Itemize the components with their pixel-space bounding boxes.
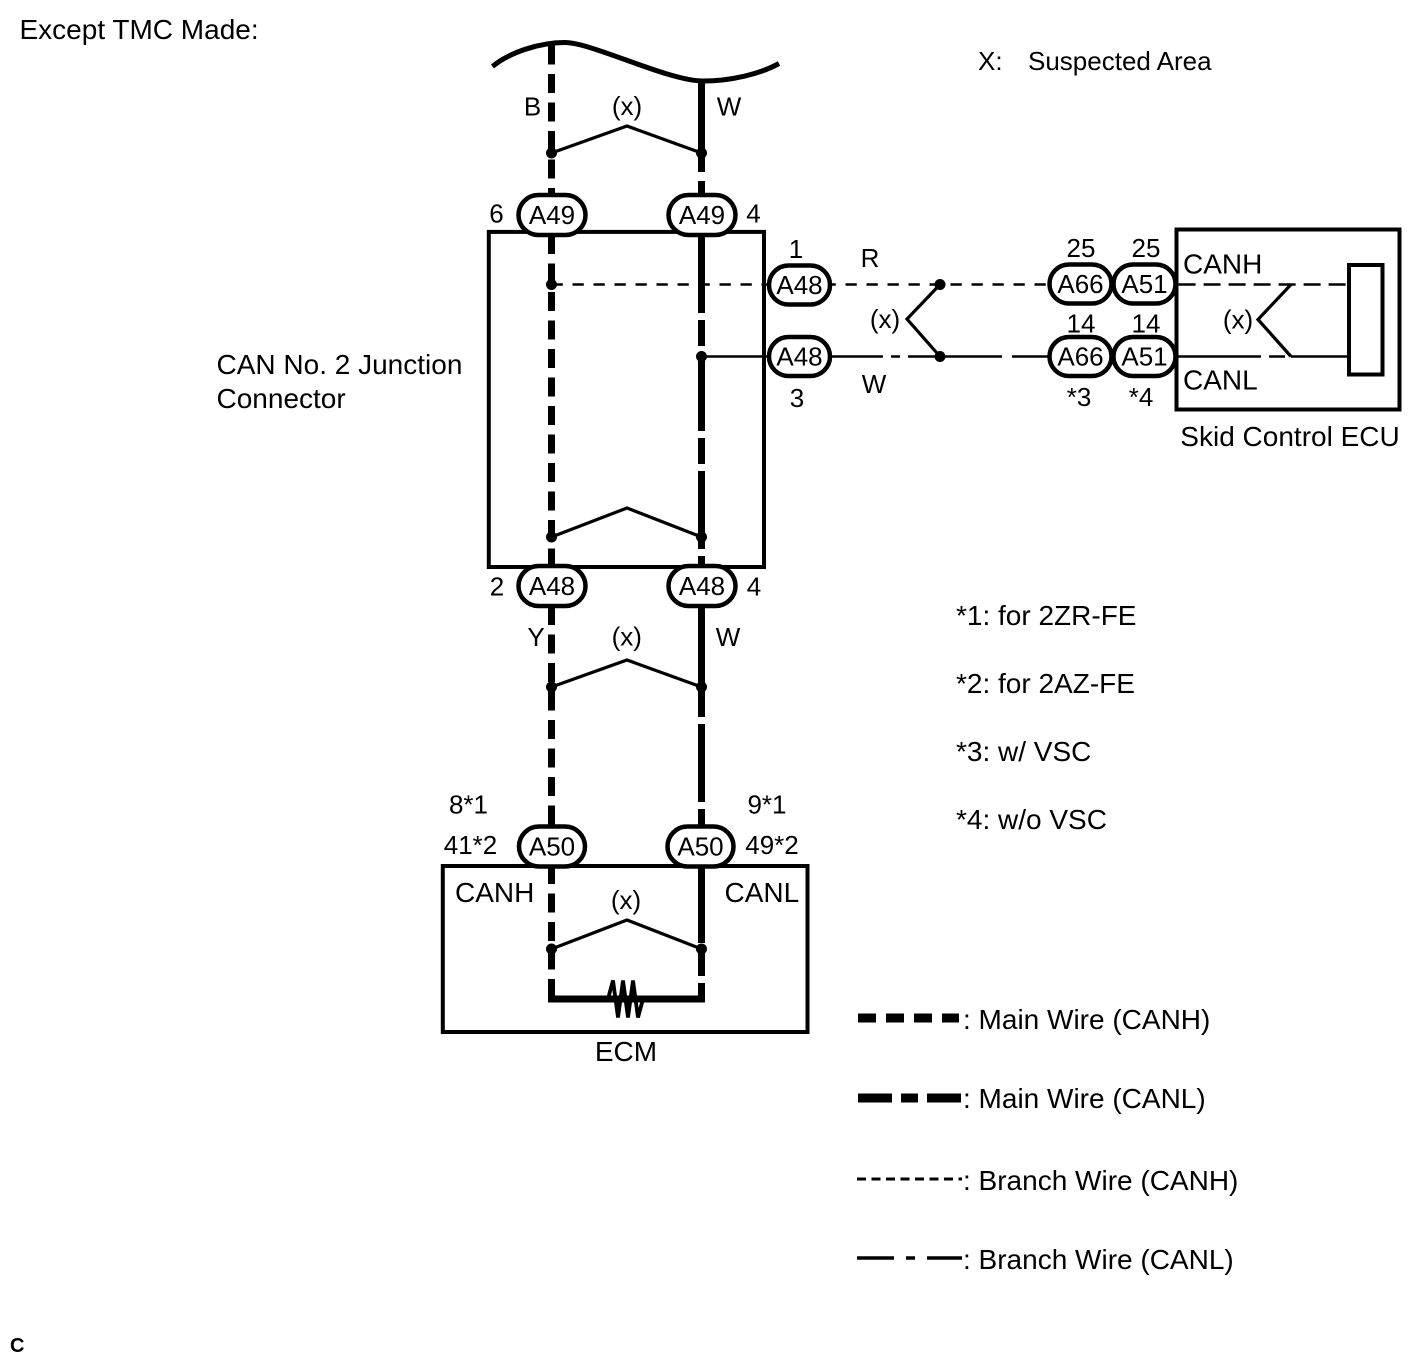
- svg-text:25: 25: [1132, 233, 1161, 263]
- svg-text:25: 25: [1067, 233, 1096, 263]
- svg-text:A48: A48: [776, 342, 822, 372]
- svg-text:14: 14: [1067, 309, 1096, 339]
- svg-text:Except TMC Made:: Except TMC Made:: [20, 14, 259, 45]
- svg-text:*4: w/o VSC: *4: w/o VSC: [956, 804, 1107, 835]
- svg-text:1: 1: [789, 234, 803, 264]
- svg-text:A66: A66: [1057, 342, 1103, 372]
- svg-text:W: W: [716, 622, 741, 652]
- svg-text:*3: *3: [1067, 382, 1092, 412]
- svg-text:A50: A50: [677, 832, 723, 862]
- svg-text:3: 3: [790, 383, 804, 413]
- svg-text:: Branch Wire (CANL): : Branch Wire (CANL): [963, 1244, 1234, 1275]
- svg-text:4: 4: [746, 199, 760, 229]
- svg-text:9*1: 9*1: [747, 790, 786, 820]
- svg-text:W: W: [717, 92, 742, 122]
- svg-text:A51: A51: [1121, 269, 1167, 299]
- svg-text:: Branch Wire (CANH): : Branch Wire (CANH): [963, 1165, 1238, 1196]
- svg-text:(x): (x): [1223, 305, 1253, 335]
- svg-text:Y: Y: [527, 622, 544, 652]
- svg-text:CANL: CANL: [1183, 365, 1258, 396]
- svg-text:A48: A48: [529, 571, 575, 601]
- svg-text:A66: A66: [1057, 269, 1103, 299]
- svg-text:Suspected Area: Suspected Area: [1028, 46, 1212, 76]
- svg-text:: Main Wire (CANH): : Main Wire (CANH): [963, 1004, 1210, 1035]
- svg-text:: Main Wire (CANL): : Main Wire (CANL): [963, 1083, 1206, 1114]
- svg-text:CAN No. 2 Junction: CAN No. 2 Junction: [217, 349, 463, 380]
- svg-text:ECM: ECM: [595, 1036, 657, 1067]
- svg-text:*2: for 2AZ-FE: *2: for 2AZ-FE: [956, 668, 1135, 699]
- svg-text:8*1: 8*1: [449, 790, 488, 820]
- svg-text:(x): (x): [612, 622, 642, 652]
- svg-text:CANH: CANH: [455, 877, 534, 908]
- svg-text:R: R: [861, 243, 880, 273]
- svg-text:*3: w/ VSC: *3: w/ VSC: [956, 736, 1091, 767]
- svg-text:14: 14: [1132, 309, 1161, 339]
- svg-text:2: 2: [490, 572, 504, 602]
- svg-text:CANH: CANH: [1183, 249, 1262, 280]
- svg-text:49*2: 49*2: [745, 830, 799, 860]
- svg-text:Connector: Connector: [217, 383, 346, 414]
- svg-text:X:: X:: [978, 46, 1003, 76]
- svg-text:*4: *4: [1129, 382, 1154, 412]
- svg-text:B: B: [524, 92, 541, 122]
- svg-text:C: C: [10, 1335, 24, 1357]
- svg-text:A49: A49: [529, 200, 575, 230]
- svg-text:Skid Control ECU: Skid Control ECU: [1180, 421, 1399, 452]
- svg-text:A48: A48: [679, 571, 725, 601]
- svg-text:41*2: 41*2: [444, 830, 498, 860]
- svg-text:6: 6: [489, 199, 503, 229]
- svg-text:W: W: [862, 369, 887, 399]
- svg-text:A51: A51: [1121, 342, 1167, 372]
- svg-text:A49: A49: [679, 200, 725, 230]
- svg-text:4: 4: [747, 572, 761, 602]
- svg-text:(x): (x): [611, 885, 641, 915]
- svg-text:(x): (x): [612, 91, 642, 121]
- svg-text:CANL: CANL: [725, 877, 800, 908]
- svg-text:*1: for 2ZR-FE: *1: for 2ZR-FE: [956, 600, 1136, 631]
- svg-text:A50: A50: [529, 832, 575, 862]
- svg-text:(x): (x): [870, 304, 900, 334]
- svg-text:A48: A48: [776, 270, 822, 300]
